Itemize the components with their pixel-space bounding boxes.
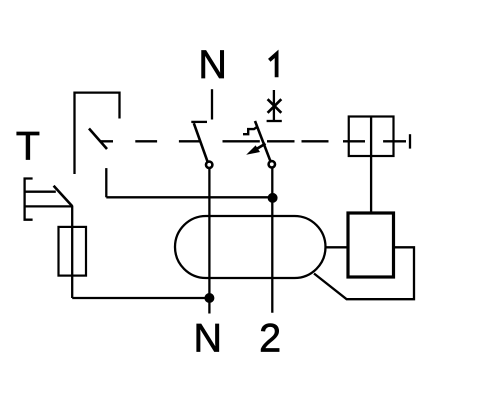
wire top-left loop <box>75 93 120 174</box>
trip arrow <box>254 144 266 151</box>
junction dot N-resistor <box>204 293 214 303</box>
test pushbutton contact blade <box>54 186 73 206</box>
trip box divider and wire to relay <box>370 117 372 214</box>
overcurrent release X <box>268 99 282 113</box>
svg-text:N: N <box>198 43 227 87</box>
phase pole pivot circle <box>269 161 275 167</box>
junction dot phase-test <box>268 193 278 203</box>
phase release vertical <box>273 90 275 121</box>
test pushbutton rail upper <box>25 191 56 193</box>
N pole blade tip bar <box>191 121 207 123</box>
test pushbutton rail lower <box>25 205 73 207</box>
N pole blade <box>194 123 208 162</box>
svg-text:T: T <box>16 125 40 169</box>
phase pole blade <box>255 121 270 161</box>
wire test contact to phase junction <box>106 196 272 198</box>
mechanical linkage dashed line <box>101 140 406 142</box>
N pole upper terminal <box>211 89 213 119</box>
svg-text:N: N <box>194 316 223 360</box>
CT secondary lead lower loop <box>314 247 414 299</box>
phase lower wire <box>271 168 273 313</box>
release terminal bar <box>267 120 282 122</box>
CT secondary lead upper <box>326 246 349 248</box>
wire pushbutton to resistor <box>71 206 73 298</box>
residual current relay coil <box>348 213 394 277</box>
svg-text:2: 2 <box>259 316 281 360</box>
toroid current transformer <box>175 216 326 278</box>
wire resistor to N junction <box>72 297 209 299</box>
test pushbutton T actuator <box>25 179 33 220</box>
N pole pivot circle <box>206 162 212 168</box>
test resistor R <box>59 227 87 276</box>
linkage end tick <box>409 134 411 148</box>
test contact lower terminal <box>105 168 107 197</box>
label 1 <box>269 54 276 77</box>
trip mechanism box <box>349 117 394 157</box>
RCD test contact blade <box>89 129 107 150</box>
N pole lower wire <box>208 168 210 313</box>
magnetic release hook <box>243 127 258 135</box>
